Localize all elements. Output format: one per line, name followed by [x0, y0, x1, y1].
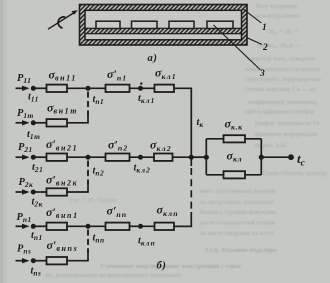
resistor σ'_п2: [106, 154, 130, 161]
svg-text:1: 1: [262, 23, 267, 33]
svg-text:Δt₃ₒ = Δt₃ +: Δt₃ₒ = Δt₃ +: [268, 28, 298, 35]
node t_пs: [31, 258, 36, 263]
node t_п1: [31, 224, 36, 229]
svg-text:2: 2: [262, 43, 268, 53]
junction t_п1: [86, 86, 91, 91]
resistor σ_вн1m: [47, 119, 68, 126]
node t_21: [31, 155, 36, 160]
chip 3: [169, 21, 194, 28]
svg-text:ми, размещенными на металличес: ми, размещенными на металлических основа…: [45, 272, 182, 279]
dashed wire to node t_пп: [87, 230, 89, 255]
heat-flow arrow into case: [48, 10, 78, 29]
svg-text:График зависимости Гв: График зависимости Гв: [255, 120, 319, 127]
dashed wire (net continuation): [87, 230, 89, 255]
resistor σ_клп: [155, 223, 175, 230]
wire with elbow up: [67, 254, 88, 260]
heat source arrow P_1m: [16, 120, 30, 125]
component 3 on board (chip 1): [96, 21, 120, 28]
junction (parallel block right): [259, 155, 264, 160]
wire: [130, 87, 155, 89]
svg-text:нагретой зоны, поверхно: нагретой зоны, поверхно: [247, 56, 315, 63]
resistor σ_кл2: [154, 154, 173, 161]
wire: [174, 87, 192, 89]
dashed wire to node t_п2: [87, 160, 89, 185]
heat source arrow P_пs: [16, 258, 30, 263]
dashed wire (net continuation): [87, 92, 89, 117]
wire (bottom branch): [206, 174, 261, 176]
heat source arrow P_11: [16, 86, 30, 91]
wire: [130, 225, 155, 227]
svg-text:ций коэффициент перфор: ций коэффициент перфор: [245, 109, 315, 116]
svg-text:Уточненное моделирование конст: Уточненное моделирование конструкций с с…: [100, 263, 241, 270]
node t_кл1: [138, 86, 143, 91]
resistor σ'_п1: [106, 85, 130, 92]
leader line 2: [247, 38, 263, 45]
svg-text:коэффициент, включающ: коэффициент, включающ: [248, 99, 317, 106]
svg-text:а): а): [148, 53, 158, 64]
resistor σ'_пп: [106, 223, 130, 230]
bus wire t_к (solid bottom elbow): [174, 212, 191, 226]
svg-text:на нести поправку на естес: на нести поправку на естес: [200, 230, 274, 237]
resistor σ_внпs: [47, 257, 68, 264]
chip 4: [207, 21, 233, 28]
heat source arrow P_2к: [16, 189, 30, 194]
node t_2к: [31, 190, 36, 195]
junction (parallel block left): [204, 155, 209, 160]
heat source arrow P_п1: [16, 224, 30, 229]
svg-text:б): б): [157, 260, 167, 271]
wire: [33, 191, 46, 193]
dashed wire to node t_п1: [87, 92, 89, 117]
svg-text:на рис. 5.42.: на рис. 5.42.: [255, 142, 289, 149]
wire: [33, 156, 46, 158]
svg-text:или воздушным: или воздушным: [256, 13, 299, 20]
bus wire t_к (solid top): [190, 88, 192, 166]
chip 2: [132, 21, 158, 28]
leader line 1: [243, 9, 262, 24]
node t_кл2: [138, 155, 143, 160]
wire: [33, 225, 46, 227]
junction t_к on bus: [189, 155, 194, 160]
wire (parallel block left vertical): [205, 139, 207, 175]
svg-text:зоны и поверхности кожуха: зоны и поверхности кожуха: [245, 66, 321, 73]
module case 1 (hatched section): [80, 5, 248, 46]
wire: [67, 225, 106, 227]
circuit board 2 (hatched plate): [85, 28, 242, 33]
resistor σ_к.л: [224, 171, 246, 178]
resistor σ_вн11: [47, 85, 68, 92]
svg-text:но представить тепловыми: но представить тепловыми: [200, 199, 274, 206]
wire: [191, 156, 206, 158]
resistor σ_к.к: [224, 135, 246, 142]
resistor σ_кл1: [155, 85, 175, 92]
leader line 3: [214, 25, 261, 70]
resistor σ_вн21: [47, 154, 68, 161]
svg-text:структурой с перфорирован: структурой с перфорирован: [245, 76, 321, 83]
wire: [33, 87, 46, 89]
wire (parallel block right vertical): [260, 139, 262, 175]
dashed wire (net continuation): [87, 160, 89, 185]
svg-text:фициента информации: фициента информации: [255, 131, 318, 138]
junction t_п2: [86, 155, 91, 160]
wire: [33, 122, 46, 124]
node t_1m: [31, 120, 36, 125]
svg-text:глухим кожухом; Св — ко: глухим кожухом; Св — ко: [245, 86, 316, 93]
wire: [67, 156, 106, 158]
wire: [33, 260, 46, 262]
svg-text:расчета показателей теплов: расчета показателей теплов: [200, 220, 275, 227]
svg-text:блоков с глухими кожухами: блоков с глухими кожухами: [200, 209, 276, 216]
resistor σ_внп1: [47, 223, 68, 230]
svg-text:кой с естественной вентиля: кой с естественной вентиля: [200, 188, 275, 195]
wire: [130, 156, 155, 158]
svg-text:Таким образом, констру: Таким образом, констру: [262, 170, 328, 177]
node t_с: [288, 154, 294, 160]
wire to t_с: [261, 156, 291, 158]
wire with elbow up: [67, 117, 88, 123]
bus wire t_к (dashed middle): [190, 168, 192, 213]
wire: [173, 156, 207, 158]
resistor σ_вн2к: [47, 188, 68, 195]
wire: [67, 87, 106, 89]
svg-text:боту воздушни: боту воздушни: [256, 3, 297, 10]
node t_клп: [138, 224, 143, 229]
junction t_пп: [86, 224, 91, 229]
svg-text:3: 3: [259, 69, 265, 79]
wire (top branch): [206, 138, 261, 140]
wire with elbow up: [67, 186, 88, 192]
heat source arrow P_21: [16, 155, 30, 160]
marker dot above t_кл1: [140, 82, 142, 84]
svg-text:5.5.6. Тепловое моделиро: 5.5.6. Тепловое моделиро: [205, 247, 277, 254]
node t_11: [31, 86, 36, 91]
wire: [174, 225, 192, 227]
